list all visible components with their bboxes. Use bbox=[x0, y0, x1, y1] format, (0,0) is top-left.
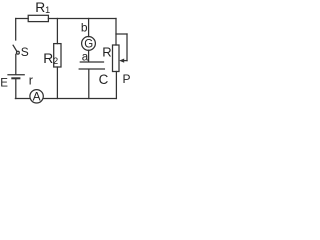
wire bottom-left horizontal bbox=[15, 98, 30, 100]
svg-text:b: b bbox=[81, 21, 88, 35]
rheostat R box bbox=[113, 45, 120, 72]
svg-text:P: P bbox=[123, 72, 131, 86]
battery E short plate bbox=[12, 77, 19, 79]
wire left vertical below switch bbox=[15, 54, 17, 74]
wire left vertical below battery bbox=[15, 79, 17, 98]
wire R2 branch bottom vertical bbox=[56, 67, 58, 99]
svg-text:R: R bbox=[102, 45, 111, 60]
wire top horizontal after R1 bbox=[48, 18, 116, 20]
svg-text:E: E bbox=[0, 77, 8, 89]
svg-text:a: a bbox=[82, 51, 89, 63]
wire right vertical below rheostat bbox=[115, 72, 117, 99]
battery E long plate bbox=[8, 74, 24, 76]
wire top-left horizontal bbox=[16, 18, 29, 20]
resistor R1 bbox=[28, 15, 48, 21]
wire right vertical top bbox=[115, 19, 117, 46]
wire G bottom to capacitor bbox=[88, 50, 90, 62]
slider arrow of rheostat P bbox=[122, 60, 128, 62]
svg-text:A: A bbox=[33, 90, 41, 104]
wire slider vertical bbox=[126, 34, 128, 61]
svg-text:G: G bbox=[84, 39, 93, 51]
capacitor C bottom plate bbox=[79, 68, 104, 70]
svg-text:r: r bbox=[29, 74, 33, 88]
wire capacitor to bottom bbox=[88, 70, 90, 99]
wire slider stub horizontal bbox=[116, 33, 127, 35]
resistor R2 box bbox=[54, 44, 61, 67]
wire left vertical above switch bbox=[15, 19, 17, 41]
svg-text:S: S bbox=[21, 45, 29, 59]
wire bottom horizontal after ammeter bbox=[43, 98, 116, 100]
slider arrowhead bbox=[119, 59, 124, 63]
galvanometer G circle bbox=[82, 37, 96, 51]
svg-text:C: C bbox=[99, 72, 109, 87]
capacitor C top plate bbox=[80, 61, 103, 63]
ammeter A circle bbox=[30, 90, 43, 103]
wire G branch top vertical bbox=[88, 19, 90, 37]
wire R2 branch top vertical bbox=[56, 19, 58, 44]
switch S bbox=[13, 45, 17, 51]
